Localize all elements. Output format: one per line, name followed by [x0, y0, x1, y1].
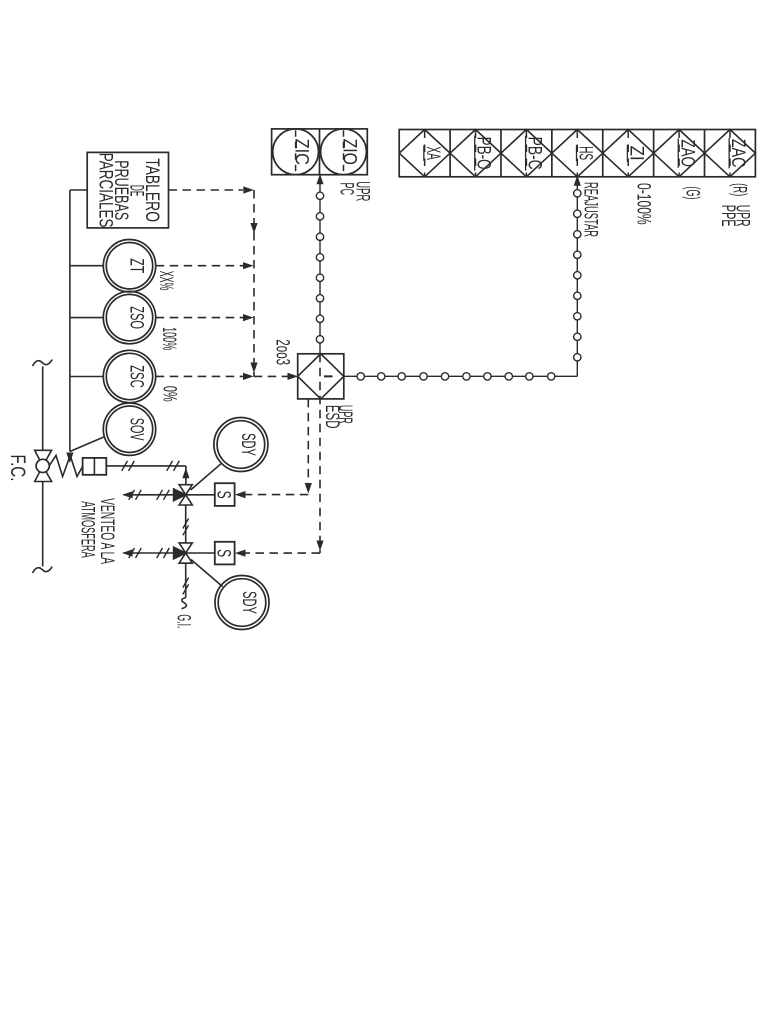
- svg-text:0-100%: 0-100%: [632, 183, 653, 225]
- svg-text:(R): (R): [729, 183, 750, 196]
- svg-text:PPE: PPE: [717, 205, 738, 227]
- svg-text:XX%: XX%: [155, 271, 176, 291]
- svg-text:PB-C: PB-C: [524, 137, 545, 170]
- svg-text:100%: 100%: [158, 327, 179, 350]
- svg-text:ZSO: ZSO: [126, 306, 147, 329]
- svg-text:0%: 0%: [158, 386, 179, 402]
- svg-text:S: S: [213, 549, 234, 557]
- svg-text:S: S: [213, 491, 234, 499]
- svg-text:ZIO: ZIO: [338, 139, 359, 165]
- svg-text:ATMOSFERA: ATMOSFERA: [76, 501, 97, 558]
- svg-text:SDY: SDY: [237, 433, 258, 456]
- svg-text:(G): (G): [682, 186, 703, 199]
- svg-text:F.C.: F.C.: [6, 455, 29, 482]
- svg-text:REAJUSTAR: REAJUSTAR: [580, 182, 601, 237]
- svg-text:ZAO: ZAO: [676, 139, 697, 166]
- svg-text:XA: XA: [422, 146, 443, 160]
- svg-text:ZAC: ZAC: [727, 139, 748, 168]
- svg-text:SOV: SOV: [126, 418, 147, 441]
- svg-text:G.I.: G.I.: [173, 614, 194, 628]
- svg-text:ESD: ESD: [321, 405, 342, 429]
- svg-text:PC: PC: [336, 183, 357, 196]
- svg-text:ZT: ZT: [126, 258, 147, 273]
- svg-text:VENTEO A LA: VENTEO A LA: [96, 498, 117, 564]
- svg-text:HS: HS: [575, 146, 596, 160]
- svg-text:SDY: SDY: [238, 591, 259, 614]
- svg-text:ZSC: ZSC: [126, 365, 147, 388]
- svg-text:PARCIALES: PARCIALES: [95, 153, 116, 228]
- svg-text:PB-O: PB-O: [473, 137, 494, 170]
- svg-text:ZI: ZI: [625, 146, 646, 161]
- svg-text:2oo3: 2oo3: [272, 339, 293, 365]
- svg-text:ZIC: ZIC: [290, 139, 311, 165]
